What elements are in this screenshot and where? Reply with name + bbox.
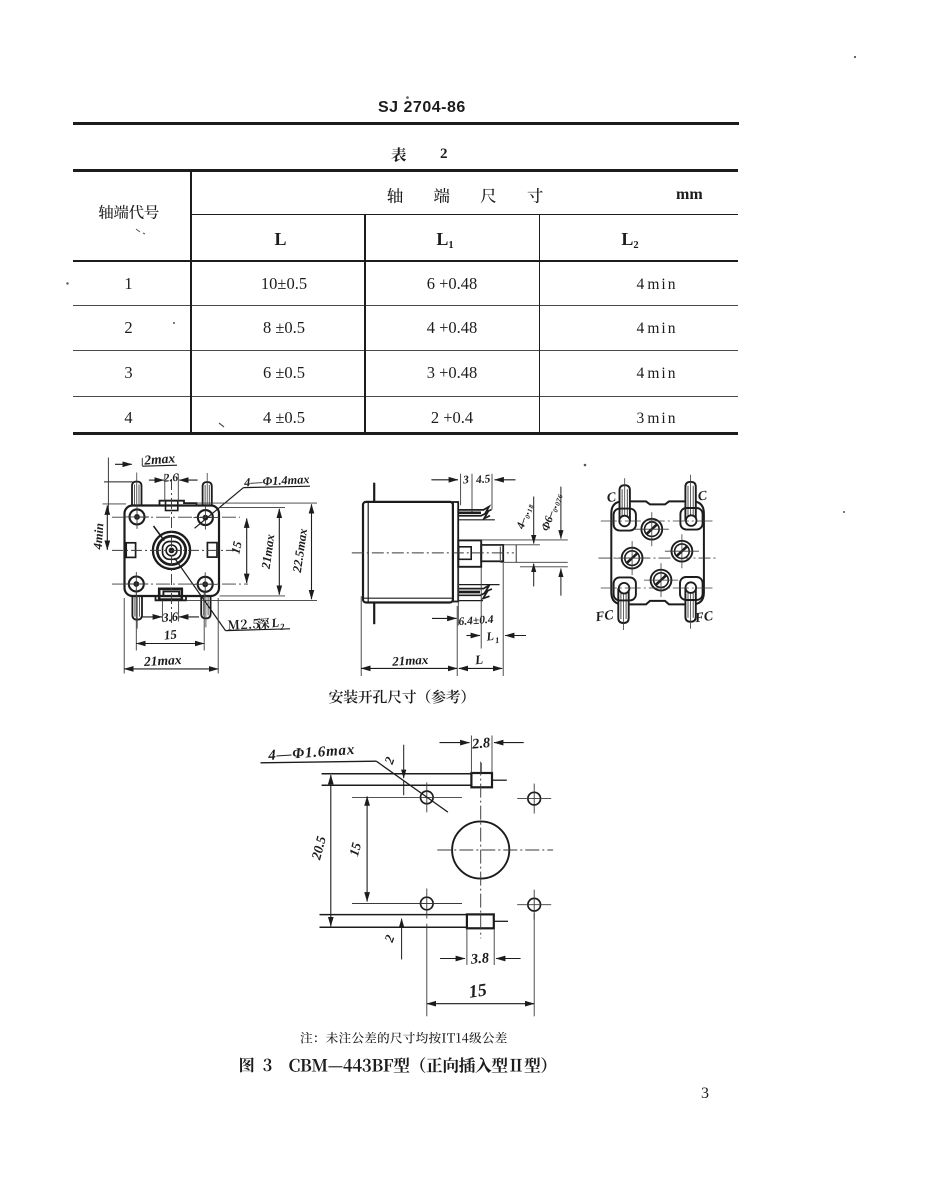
- svg-text:3.6: 3.6: [161, 609, 180, 624]
- svg-text:1: 1: [495, 635, 500, 645]
- svg-text:4min: 4min: [91, 523, 107, 551]
- svg-text:FC: FC: [693, 608, 715, 626]
- svg-text:2: 2: [381, 754, 398, 767]
- svg-text:FC: FC: [593, 607, 615, 625]
- svg-text:C: C: [606, 489, 618, 505]
- svg-text:15: 15: [228, 540, 244, 555]
- svg-text:L: L: [473, 652, 484, 668]
- svg-text:3: 3: [462, 474, 470, 487]
- svg-text:15: 15: [163, 626, 178, 642]
- svg-text:4.5: 4.5: [475, 473, 492, 486]
- svg-text:6.4±0.4: 6.4±0.4: [458, 614, 494, 628]
- svg-text:2.8: 2.8: [470, 735, 491, 753]
- svg-text:22.5max: 22.5max: [290, 528, 310, 575]
- svg-text:21max: 21max: [259, 533, 278, 570]
- svg-text:2: 2: [278, 621, 285, 632]
- svg-text:Φ6–₀.₀₇₆: Φ6–₀.₀₇₆: [540, 491, 564, 532]
- svg-text:2: 2: [381, 932, 398, 945]
- svg-text:21max: 21max: [391, 652, 429, 669]
- svg-text:L: L: [485, 629, 495, 644]
- svg-text:21max: 21max: [143, 652, 182, 669]
- svg-text:20.5: 20.5: [308, 834, 329, 862]
- svg-text:15: 15: [467, 979, 488, 1001]
- svg-text:4–₀.₁₈: 4–₀.₁₈: [515, 502, 535, 532]
- svg-text:15: 15: [346, 841, 364, 858]
- svg-text:4—Φ1.6max: 4—Φ1.6max: [267, 742, 356, 764]
- svg-text:C: C: [697, 487, 709, 503]
- svg-text:3.8: 3.8: [469, 950, 490, 968]
